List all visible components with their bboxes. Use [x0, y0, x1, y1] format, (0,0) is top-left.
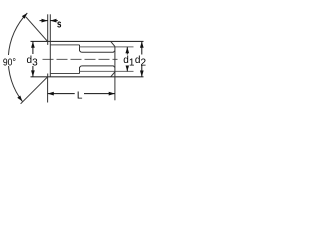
arc arrowhead bottom	[17, 95, 22, 101]
arc arrowhead top	[22, 13, 27, 19]
d1 label	[123, 55, 135, 69]
head chamfer line top	[50, 44, 79, 46]
svg-text:90°: 90°	[3, 57, 16, 68]
svg-text:s: s	[57, 18, 61, 31]
dimension L line right segment with arrow	[84, 93, 115, 95]
body outline bottom crest with d3/d2 extension lines	[31, 76, 144, 78]
end face with L extension below	[114, 46, 116, 100]
dimension d2 line	[141, 41, 143, 76]
left face upper segment	[47, 14, 49, 45]
dimension s line right with arrow	[50, 20, 58, 22]
L extension line left	[47, 78, 49, 103]
end chamfer bottom	[111, 72, 115, 77]
bore line top with end chamfer	[81, 51, 115, 53]
centerline (dashed screw axis)	[43, 58, 118, 60]
thread root line bottom with d1 extension	[80, 70, 134, 72]
90deg lower extension diagonal	[21, 77, 48, 104]
dimension s line left with arrow	[40, 20, 48, 22]
thread root line top with d1 extension	[80, 46, 134, 48]
end chamfer top	[111, 41, 115, 46]
bore line bottom with end chamfer	[81, 66, 115, 68]
left face lower segment	[47, 74, 49, 78]
dimension d1 line	[126, 47, 128, 72]
90deg label	[3, 55, 18, 67]
step shoulder bottom	[80, 66, 82, 74]
body outline top crest with d3/d2 extension lines	[31, 40, 144, 42]
90deg dimension arc	[8, 13, 27, 101]
slot bottom line with s extension above	[49, 14, 51, 77]
d3 label	[26, 54, 39, 68]
d2 label	[135, 55, 147, 69]
svg-text:L: L	[77, 91, 83, 102]
head chamfer line bottom	[50, 73, 79, 75]
dimension d3 line	[32, 41, 34, 76]
dimension L line left segment with arrow	[48, 93, 75, 95]
90deg upper extension diagonal	[26, 17, 48, 42]
step shoulder top	[80, 45, 82, 52]
